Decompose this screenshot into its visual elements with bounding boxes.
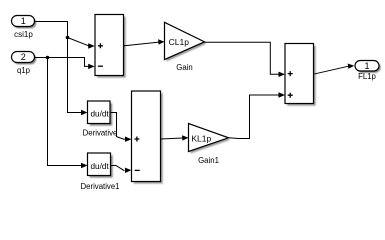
svg-text:KL1p: KL1p [191, 134, 211, 144]
wire Derivative to Sum1 plus [110, 113, 132, 142]
wire Derivative1 to Sum1 minus [111, 166, 132, 174]
svg-text:FL1p: FL1p [358, 72, 376, 81]
sum block Sum [95, 15, 126, 78]
sum block Sum1 [132, 91, 163, 184]
wire Gain1 to Sum2 second plus [229, 92, 286, 138]
svg-text:du/dt: du/dt [90, 162, 109, 171]
wire Sum to Gain [124, 39, 165, 46]
junction In2 branch [46, 56, 50, 60]
svg-text:du/dt: du/dt [90, 109, 109, 118]
derivative block Derivative1 [88, 153, 113, 178]
derivative block Derivative [88, 101, 113, 126]
inport In1 [12, 16, 37, 29]
sum block Sum2 [285, 44, 316, 106]
svg-text:Gain1: Gain1 [198, 156, 219, 165]
wire In2 branch to Derivative1 [48, 58, 88, 169]
svg-text:CL1p: CL1p [169, 37, 190, 47]
svg-text:Gain: Gain [176, 63, 192, 72]
wire In2 to Sum minus [35, 58, 95, 70]
svg-text:q1p: q1p [17, 66, 31, 75]
svg-text:Derivative1: Derivative1 [81, 182, 120, 191]
gain block CL1p [165, 22, 207, 61]
wire In1 to Derivative [35, 22, 88, 116]
gain block KL1p [189, 124, 231, 154]
inport In2 [12, 52, 37, 65]
svg-text:2: 2 [21, 52, 26, 62]
svg-text:csi1p: csi1p [14, 30, 33, 39]
svg-text:1: 1 [21, 16, 26, 26]
outport Out1 [355, 61, 381, 73]
svg-text:1: 1 [364, 61, 369, 71]
svg-text:Derivative: Derivative [83, 128, 118, 137]
wire Gain to Sum2 first plus [205, 42, 286, 77]
wire Sum1 to Gain1 [161, 135, 189, 140]
wire In1 branch to Sum plus [68, 38, 95, 49]
junction In1 branch [66, 36, 70, 40]
wire Sum2 to Out1 [314, 64, 355, 75]
